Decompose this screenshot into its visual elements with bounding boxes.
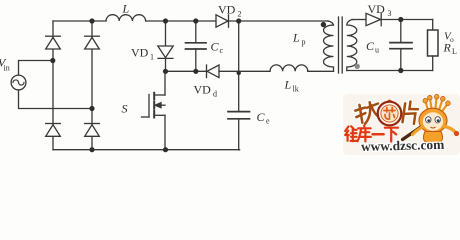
node dot Vin top junction xyxy=(50,58,55,63)
svg-text:u: u xyxy=(375,46,379,55)
label Cu xyxy=(366,39,379,55)
diode VD2 xyxy=(216,15,229,27)
node dot VD2 cathode xyxy=(236,18,241,23)
label VD1 xyxy=(131,46,154,62)
transformer core bar 1 xyxy=(338,17,340,73)
label Cc xyxy=(211,40,224,56)
diode VD1 xyxy=(158,46,173,58)
node dot Cu top xyxy=(398,17,403,22)
capacitor Ce xyxy=(228,112,250,119)
wire bridge left column xyxy=(52,21,54,150)
svg-text:VD: VD xyxy=(368,2,386,16)
node dot Cu bottom xyxy=(398,68,403,73)
mosfet S arrow xyxy=(155,103,161,108)
node dot primary polarity xyxy=(321,22,326,27)
mosfet S gate lead xyxy=(142,116,150,118)
svg-text:p: p xyxy=(302,38,306,47)
svg-text:R: R xyxy=(443,41,452,55)
inductor L xyxy=(106,15,146,21)
wire bridge right column xyxy=(91,21,93,150)
node dot bridge right mid xyxy=(89,106,94,111)
svg-text:L: L xyxy=(122,2,130,16)
wire Llk from node xyxy=(239,70,270,72)
watermark backdrop haze xyxy=(343,94,460,155)
node dot secondary polarity xyxy=(355,64,360,69)
wire VD2 to Lp top xyxy=(229,20,329,22)
resistor RL box xyxy=(428,30,439,56)
wire Vin top lead xyxy=(19,61,54,76)
svg-text:VD: VD xyxy=(218,3,236,17)
svg-text:1: 1 xyxy=(150,53,154,62)
svg-text:C: C xyxy=(211,40,220,54)
wire Llk to Lp bottom xyxy=(308,70,334,72)
label VD3 xyxy=(368,2,392,18)
svg-text:3: 3 xyxy=(388,9,392,18)
wire bottom rail xyxy=(53,149,240,151)
transformer secondary winding xyxy=(347,19,357,70)
sine wave inside Vin xyxy=(13,80,24,85)
wire top rail left segment xyxy=(53,20,106,22)
wire secondary top to VD3 xyxy=(352,19,366,21)
wire clamp node horizontal xyxy=(166,70,207,72)
svg-text:S: S xyxy=(122,102,128,116)
svg-text:d: d xyxy=(213,90,217,99)
mosfet S drain lead xyxy=(164,71,166,95)
svg-text:C: C xyxy=(257,110,266,124)
wire Vin bottom lead xyxy=(19,90,93,109)
watermark pointer stick xyxy=(403,128,421,140)
wire VD1 column xyxy=(165,21,167,46)
inductor Llk xyxy=(270,65,308,71)
watermark magnifier badge xyxy=(378,100,402,126)
transformer core bar 2 xyxy=(341,17,343,73)
capacitor Cu xyxy=(390,43,412,49)
wire VDd to Ce column xyxy=(219,70,239,72)
label Llk xyxy=(284,78,299,94)
source Vin circle xyxy=(11,75,26,90)
label VDd xyxy=(194,83,218,99)
svg-text:VD: VD xyxy=(131,46,149,60)
wire Cc column top xyxy=(195,21,197,43)
svg-text:lk: lk xyxy=(293,85,299,94)
mosfet S channel segments xyxy=(153,93,155,118)
label Vo xyxy=(444,31,454,45)
wire Cu column bottom xyxy=(400,49,402,71)
node dot Cc bottom xyxy=(193,69,198,74)
watermark char pian xyxy=(403,101,419,124)
svg-text:in: in xyxy=(4,64,10,73)
node dot Cc top xyxy=(193,18,198,23)
wire VD3 to output corner xyxy=(381,19,433,21)
diode bridge bottom-left xyxy=(46,124,61,137)
diode bridge top-left xyxy=(46,36,61,49)
wire Cc column bottom xyxy=(195,49,197,71)
mosfet S drain stub xyxy=(154,94,165,96)
diode bridge bottom-right xyxy=(85,124,100,137)
node dot Llk junction xyxy=(237,71,241,75)
mosfet S source lead xyxy=(164,115,166,149)
svg-text:2: 2 xyxy=(238,10,242,19)
label Ce xyxy=(257,110,271,126)
svg-text:c: c xyxy=(220,46,224,55)
watermark dzsc xyxy=(343,94,460,155)
label VD2 xyxy=(218,3,242,19)
wire VD1 to clamp node xyxy=(165,58,167,71)
node dot mosfet source at rail xyxy=(163,147,168,152)
svg-text:L: L xyxy=(292,31,300,45)
label RL xyxy=(443,41,458,57)
diode VDd xyxy=(207,65,220,78)
wire output bottom rail xyxy=(347,70,433,72)
svg-text:L: L xyxy=(452,47,457,56)
watermark mascot xyxy=(413,94,460,142)
transformer primary Lp winding xyxy=(324,21,334,71)
svg-text:www.dzsc.com: www.dzsc.com xyxy=(361,137,445,154)
wire top rail mid segment xyxy=(146,20,216,22)
mosfet S middle stub with arrow xyxy=(154,104,165,106)
node dot bridge right bottom xyxy=(89,147,94,152)
wire Cu column top xyxy=(400,20,402,43)
node dot VD1 bottom xyxy=(163,69,168,74)
watermark text weiku red chars xyxy=(345,126,398,142)
diode bridge top-right xyxy=(85,36,100,49)
svg-text:L: L xyxy=(284,78,292,92)
label Lp xyxy=(292,31,306,47)
svg-text:e: e xyxy=(266,117,270,126)
node dot VD1 top xyxy=(163,18,168,23)
svg-text:VD: VD xyxy=(194,83,212,97)
mosfet S gate bar xyxy=(148,95,150,118)
watermark char zhao xyxy=(354,101,383,125)
label Vin xyxy=(0,56,10,73)
svg-text:C: C xyxy=(366,39,375,53)
wire output right column top xyxy=(432,20,434,31)
wire RL bottom to rail xyxy=(432,56,434,71)
wire Ce bottom to rail corner xyxy=(238,119,241,150)
wire VD2 cathode column down xyxy=(238,21,240,112)
mosfet S bottom stub xyxy=(154,114,165,116)
node dot bridge right top xyxy=(89,18,94,23)
capacitor Cc xyxy=(186,43,207,49)
diode VD3 xyxy=(366,13,381,25)
